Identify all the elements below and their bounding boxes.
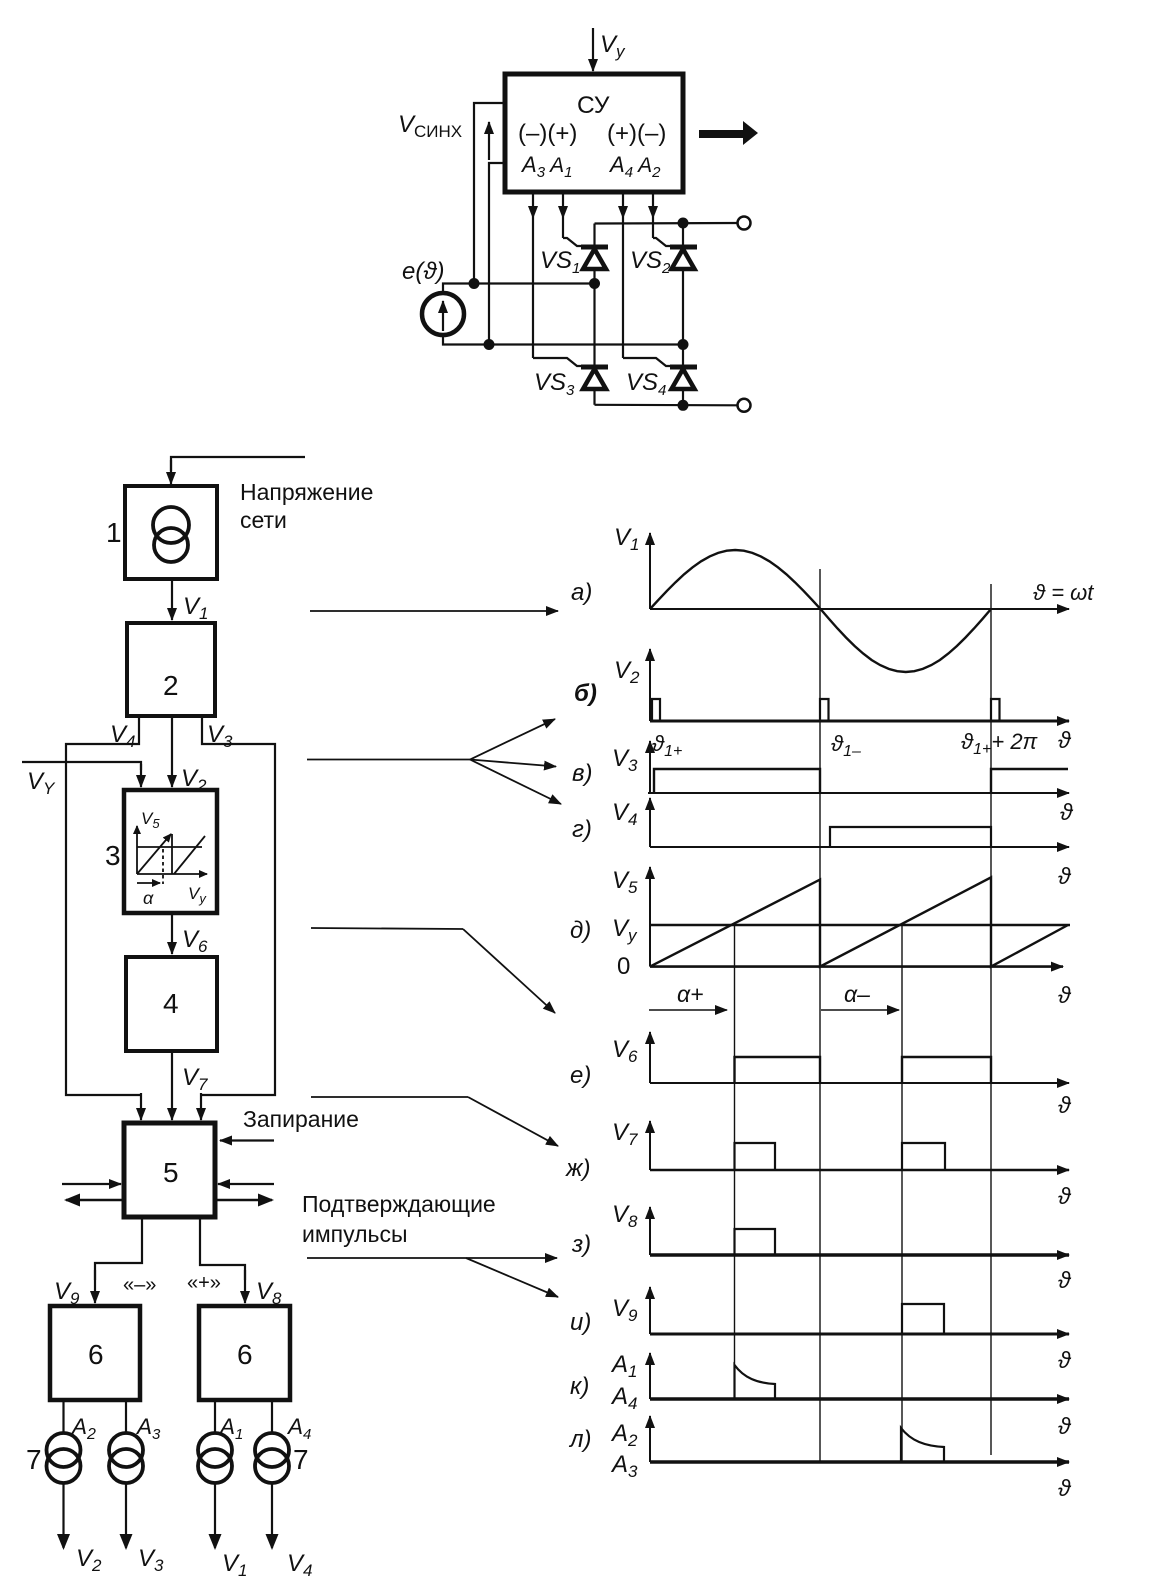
svg-text:Напряжение: Напряжение <box>240 479 373 505</box>
svg-text:VS3: VS3 <box>534 369 575 399</box>
big output arrow <box>699 121 758 145</box>
pulse transformer 7c <box>198 1433 232 1483</box>
V2 pulses <box>652 699 1000 721</box>
gate wire A1 to VS1 <box>558 192 581 246</box>
svg-text:ϑ: ϑ <box>1058 1347 1072 1373</box>
wire block5 left out-arrow <box>66 1199 124 1202</box>
node VS2 anode junction <box>678 339 689 350</box>
plot b axes <box>650 649 1069 721</box>
Vsync direction arrow <box>488 122 490 160</box>
wire V4 path <box>66 716 141 1095</box>
feed arrow to plot d <box>311 928 555 1013</box>
svg-text:V3: V3 <box>207 721 233 751</box>
wire block5 right in-arrow <box>218 1183 274 1185</box>
thyristor VS4 <box>670 345 697 405</box>
node source top junction <box>469 278 480 289</box>
arrow V3 into block5 <box>200 1093 202 1120</box>
svg-text:ϑ1+: ϑ1+ <box>652 731 682 760</box>
gate wire A3 to VS3 <box>528 192 581 366</box>
svg-text:3: 3 <box>105 840 121 871</box>
plot a axes <box>650 533 1069 609</box>
block 6 left <box>50 1306 140 1400</box>
terminal top <box>738 217 751 230</box>
svg-text:V5: V5 <box>141 809 160 831</box>
block3 mini graph <box>137 826 207 884</box>
control unit CU box <box>505 74 683 192</box>
svg-text:5: 5 <box>163 1157 179 1188</box>
svg-text:ϑ: ϑ <box>1058 863 1072 889</box>
svg-text:Vy: Vy <box>612 915 638 945</box>
pulse transformer 7d <box>255 1433 289 1483</box>
svg-text:V1: V1 <box>183 593 208 623</box>
svg-text:V8: V8 <box>256 1278 282 1308</box>
svg-text:V6: V6 <box>182 926 208 956</box>
svg-text:V7: V7 <box>182 1064 208 1094</box>
plot z axes <box>650 1207 1069 1255</box>
V8 waveform <box>735 1229 776 1255</box>
wire lock arrow <box>220 1139 274 1141</box>
svg-text:1: 1 <box>106 517 122 548</box>
V7 waveform <box>735 1143 946 1170</box>
thyristor VS1 <box>581 224 608 284</box>
svg-text:и): и) <box>570 1309 591 1336</box>
A1A4 gate pulse decay <box>735 1365 776 1399</box>
output arrow V3 <box>125 1483 127 1548</box>
wire block6b out A4 <box>271 1400 273 1434</box>
wire VY input <box>22 762 141 787</box>
svg-text:V4: V4 <box>287 1550 312 1580</box>
wire V1 <box>171 579 173 620</box>
svg-text:VS2: VS2 <box>630 247 671 277</box>
transformer symbol block1 <box>153 507 189 562</box>
Vy level line <box>650 924 1070 926</box>
feed fan to plots b,v,g <box>307 719 561 804</box>
feed arrows to plots z,i <box>307 1258 558 1297</box>
svg-text:з): з) <box>571 1231 591 1258</box>
svg-text:V2: V2 <box>614 657 640 687</box>
wire V7 <box>171 1051 173 1120</box>
svg-text:ϑ: ϑ <box>1058 1475 1072 1501</box>
svg-text:α–: α– <box>844 981 870 1007</box>
svg-text:A1: A1 <box>610 1351 637 1381</box>
output arrow V1 <box>214 1483 216 1548</box>
svg-text:6: 6 <box>237 1339 253 1370</box>
svg-text:ϑ1–: ϑ1– <box>831 731 861 760</box>
svg-text:V1: V1 <box>614 524 639 554</box>
svg-text:ϑ: ϑ <box>1058 1183 1072 1209</box>
svg-text:ж): ж) <box>565 1155 591 1182</box>
svg-text:α+: α+ <box>677 981 704 1007</box>
wire block5 right out-arrow <box>215 1199 272 1202</box>
svg-text:г): г) <box>572 816 592 843</box>
node bottom rail junction <box>678 400 689 411</box>
wire top output rail <box>595 222 738 225</box>
svg-text:ϑ: ϑ <box>1058 1092 1072 1118</box>
reference line theta1+ <box>734 925 736 1399</box>
plot k axes <box>650 1353 1069 1399</box>
svg-text:V1: V1 <box>222 1550 247 1580</box>
A2A3 gate pulse decay <box>901 1428 944 1462</box>
wire V6 <box>171 913 173 954</box>
svg-text:0: 0 <box>617 953 630 980</box>
input Vy arrow into CU <box>592 28 594 71</box>
svg-text:д): д) <box>570 917 591 944</box>
source arrow <box>442 301 444 331</box>
plot g axes <box>650 798 1069 847</box>
plot d axes <box>650 867 1063 967</box>
svg-text:VS4: VS4 <box>626 369 666 399</box>
wire source bottom rail <box>443 335 683 345</box>
svg-text:VS1: VS1 <box>540 247 580 277</box>
output arrow V4 <box>271 1483 273 1548</box>
svg-text:к): к) <box>570 1373 589 1400</box>
svg-text:A4: A4 <box>610 1383 637 1413</box>
wire CU left to sync line upper <box>474 103 505 284</box>
reference line theta1- <box>819 569 821 1462</box>
gate wire A4 to VS4 <box>618 192 670 366</box>
svg-text:л): л) <box>568 1426 592 1453</box>
V6 waveform <box>735 1057 992 1083</box>
svg-text:сети: сети <box>240 507 287 533</box>
gate wire A2 to VS2 <box>648 192 670 246</box>
plot l axes <box>650 1416 1069 1462</box>
output arrow V2 <box>62 1483 64 1548</box>
block 5 (pulse distributor) <box>124 1123 215 1217</box>
plot i axes <box>650 1287 1069 1334</box>
svg-text:2: 2 <box>163 670 179 701</box>
svg-text:α: α <box>143 888 154 908</box>
terminal bottom <box>738 399 751 412</box>
wire block6b out A1 <box>214 1400 216 1434</box>
wire block6a out A2 <box>62 1400 64 1434</box>
reference line theta1+ 2pi <box>990 584 992 1455</box>
V9 waveform <box>902 1304 944 1334</box>
node VS1 cathode junction <box>589 278 600 289</box>
svg-text:б): б) <box>574 680 597 707</box>
block 1 (sync transformer) <box>125 486 217 579</box>
svg-text:ϑ: ϑ <box>1058 982 1072 1008</box>
svg-text:Запирание: Запирание <box>243 1106 359 1132</box>
feed arrow to plot zh <box>311 1097 558 1146</box>
svg-text:импульсы: импульсы <box>302 1221 408 1247</box>
block 2 <box>127 623 215 716</box>
svg-text:«+»: «+» <box>187 1272 221 1294</box>
svg-text:A1: A1 <box>218 1414 243 1443</box>
thyristor VS2 <box>670 223 697 345</box>
svg-text:A4 A2: A4 A2 <box>608 152 661 181</box>
node source bottom junction <box>484 339 495 350</box>
source e circle <box>422 293 464 335</box>
svg-text:V6: V6 <box>612 1036 638 1066</box>
svg-text:4: 4 <box>163 988 179 1019</box>
wire bottom output rail <box>595 404 737 407</box>
svg-text:Vy: Vy <box>188 884 207 906</box>
svg-text:a): a) <box>571 579 592 606</box>
sawtooth V5 <box>650 877 1068 966</box>
svg-text:(+)(–): (+)(–) <box>607 120 666 147</box>
svg-text:V3: V3 <box>138 1545 164 1575</box>
svg-text:7: 7 <box>293 1444 309 1475</box>
wire V2 <box>171 716 173 787</box>
svg-text:V7: V7 <box>612 1119 638 1149</box>
plot v axes <box>648 741 1069 793</box>
svg-text:7: 7 <box>26 1444 42 1475</box>
reference line alpha- firing <box>901 925 903 1462</box>
svg-text:A3 A1: A3 A1 <box>520 152 572 181</box>
wire block6a out A3 <box>125 1400 127 1434</box>
wire V9 path <box>95 1217 142 1303</box>
V3 waveform <box>654 769 1068 793</box>
alpha+ arrow <box>649 1009 727 1011</box>
plot e axes <box>650 1032 1069 1083</box>
block 4 <box>126 957 217 1051</box>
svg-text:6: 6 <box>88 1339 104 1370</box>
svg-text:V4: V4 <box>612 799 637 829</box>
mains input wire <box>171 457 305 484</box>
wire V3 path <box>201 716 275 1095</box>
svg-text:ϑ: ϑ <box>1058 727 1072 753</box>
block 3 (phase shifter) <box>124 790 217 913</box>
svg-text:V9: V9 <box>54 1278 80 1308</box>
svg-text:ϑ: ϑ <box>1058 1267 1072 1293</box>
svg-text:V3: V3 <box>612 745 638 775</box>
thyristor VS3 <box>581 284 608 405</box>
svg-text:в): в) <box>572 760 593 787</box>
svg-text:V5: V5 <box>612 867 638 897</box>
svg-text:VY: VY <box>27 768 56 798</box>
wire CU left to sync line lower <box>489 163 505 345</box>
sine wave V1 <box>650 550 991 672</box>
svg-text:Vy: Vy <box>600 31 626 61</box>
wire source top rail <box>443 284 595 294</box>
svg-text:ϑ1++ 2π: ϑ1++ 2π <box>961 729 1039 758</box>
svg-text:ϑ = ωt: ϑ = ωt <box>1033 580 1094 605</box>
wire block5 left in-arrow <box>62 1183 121 1185</box>
svg-text:ϑ: ϑ <box>1058 1413 1072 1439</box>
svg-text:V9: V9 <box>612 1295 638 1325</box>
pulse transformer 7a <box>47 1433 81 1483</box>
alpha- arrow <box>821 1009 899 1011</box>
plot zh axes <box>650 1121 1069 1170</box>
svg-text:A3: A3 <box>610 1451 638 1481</box>
svg-text:V8: V8 <box>612 1201 638 1231</box>
svg-text:V4: V4 <box>110 721 135 751</box>
svg-text:A4: A4 <box>286 1414 311 1443</box>
pulse transformer 7b <box>109 1433 143 1483</box>
svg-text:е): е) <box>570 1062 591 1089</box>
svg-text:Подтверждающие: Подтверждающие <box>302 1191 496 1217</box>
svg-text:СУ: СУ <box>577 92 610 119</box>
arrow V4 into block5 <box>140 1093 142 1120</box>
wire V8 path <box>200 1217 245 1303</box>
svg-text:A2: A2 <box>610 1420 638 1450</box>
block 6 right <box>199 1306 290 1400</box>
svg-text:e(ϑ): e(ϑ) <box>402 258 445 285</box>
svg-text:V2: V2 <box>76 1545 102 1575</box>
V4 waveform <box>830 827 991 847</box>
node top rail junction <box>678 218 689 229</box>
feed arrow to plot a <box>310 610 558 612</box>
svg-text:«–»: «–» <box>123 1274 156 1296</box>
svg-text:ϑ: ϑ <box>1060 799 1074 825</box>
svg-text:(–)(+): (–)(+) <box>518 120 577 147</box>
svg-text:VСИНХ: VСИНХ <box>398 111 462 141</box>
